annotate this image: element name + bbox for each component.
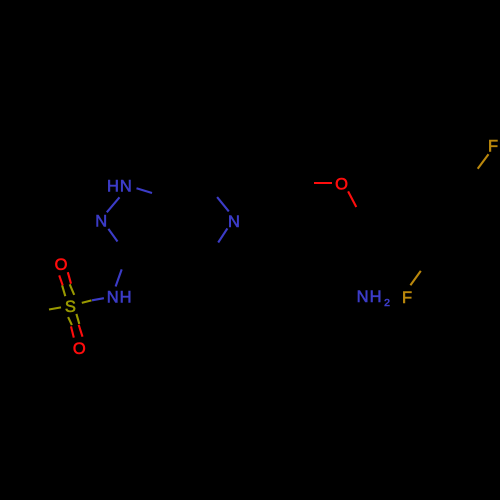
svg-text:N: N <box>228 213 240 231</box>
svg-text:HN: HN <box>107 178 133 196</box>
svg-text:O: O <box>55 256 68 274</box>
svg-text:O: O <box>73 340 86 358</box>
svg-text:F: F <box>402 289 412 307</box>
svg-text:N: N <box>95 212 107 230</box>
svg-text:O: O <box>335 176 348 194</box>
svg-text:F: F <box>488 138 498 156</box>
svg-text:S: S <box>65 298 76 316</box>
svg-text:NH: NH <box>107 289 133 307</box>
svg-text:2: 2 <box>384 297 390 309</box>
svg-text:NH: NH <box>357 288 383 306</box>
